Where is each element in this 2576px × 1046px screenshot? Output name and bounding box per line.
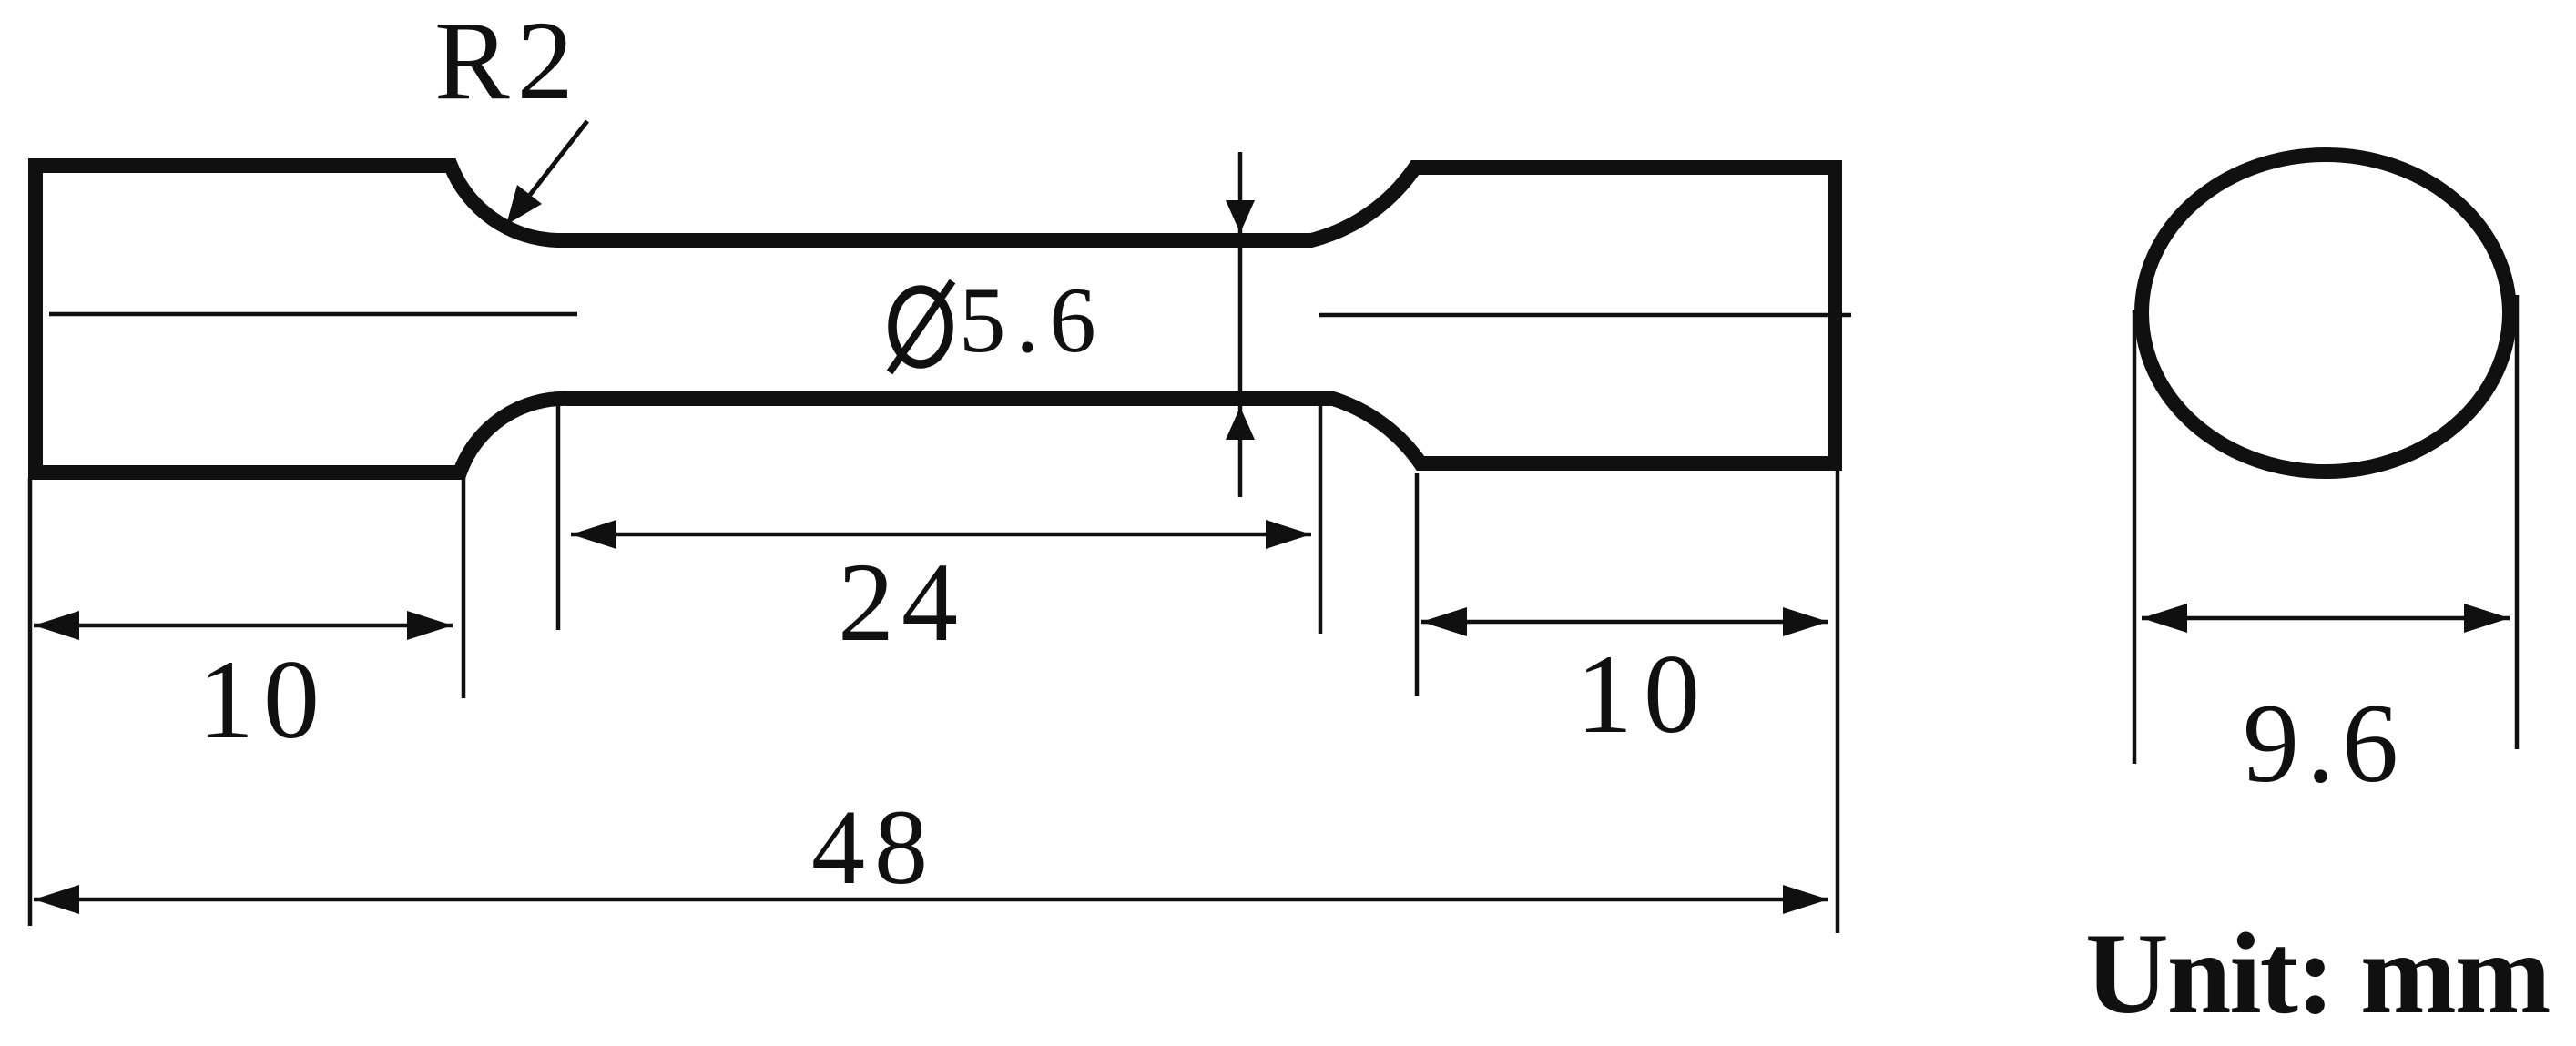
dimension 10 right [1421, 607, 1828, 636]
svg-text:10: 10 [198, 637, 329, 762]
dimension 9.6 [2142, 604, 2510, 633]
svg-text:R2: R2 [434, 0, 581, 123]
extension line gauge left (x=613) [556, 401, 561, 630]
dimension line diameter 5.6 vertical [1226, 152, 1255, 497]
svg-text:10: 10 [1576, 632, 1711, 757]
extension line left end (x=33) [28, 478, 33, 926]
centerline right [1319, 313, 1851, 318]
svg-text:Unit: mm: Unit: mm [2085, 910, 2550, 1038]
circle cross-section view [2142, 155, 2510, 472]
extension line gauge right (x=1450) [1319, 405, 1323, 634]
svg-text:24: 24 [838, 540, 965, 665]
extension line left grip right (x=509) [462, 472, 466, 698]
extension line circle right (x=2764) [2515, 295, 2520, 749]
extension line right grip left (x=1556) [1415, 473, 1420, 696]
centerline left [49, 312, 577, 317]
dimension 24 [571, 520, 1311, 549]
dimension 10 left [34, 611, 453, 640]
leader arrow R2 [506, 121, 587, 225]
label diameter 5.6 [890, 269, 1106, 372]
extension line right end (x=2018) [1836, 471, 1840, 933]
svg-text:5.6: 5.6 [959, 269, 1106, 372]
extension line circle left (x=2344) [2133, 310, 2137, 764]
svg-text:9.6: 9.6 [2243, 681, 2406, 806]
dimension 48 [34, 885, 1828, 914]
specimen outline (dog-bone side view) [36, 166, 1835, 472]
svg-text:48: 48 [811, 787, 937, 907]
